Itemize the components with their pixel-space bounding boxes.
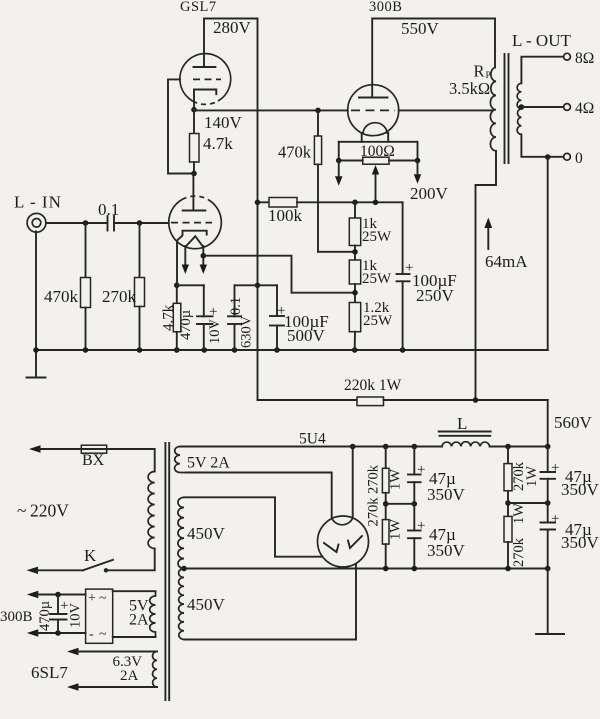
ground symbol left (35, 350, 37, 378)
output transformer OPT primary winding (490, 67, 496, 151)
wire heater elevation to divider (203, 256, 355, 293)
wire 560V drop (547, 400, 549, 447)
svg-text:+: + (417, 518, 425, 534)
5U4 anode right (348, 536, 362, 548)
V1b grid (dashed) (171, 222, 212, 224)
svg-text:+: + (209, 304, 217, 320)
svg-text:0: 0 (575, 150, 583, 167)
wire tap to 4 ohm terminal (521, 106, 563, 108)
rectifier 5U4 envelope (318, 516, 369, 567)
V1b cathode (177, 231, 207, 286)
wire secondary bottom to 0 terminal (521, 134, 563, 156)
svg-text:350V: 350V (561, 533, 600, 552)
svg-text:+: + (551, 460, 559, 476)
resistor 270k 1W (right lower) (504, 516, 512, 542)
svg-text:~ 220V: ~ 220V (17, 501, 69, 521)
T1 450V winding lower (179, 569, 185, 640)
pot wiper arrow (375, 175, 377, 202)
V1b heater (185, 236, 203, 247)
svg-text:220k 1W: 220k 1W (344, 377, 402, 394)
svg-text:~: ~ (99, 627, 107, 642)
svg-text:10V: 10V (68, 603, 84, 629)
resistor 1k 25W (upper) (354, 202, 356, 218)
capacitor 470u 10V filament (55, 592, 61, 598)
svg-text:630V: 630V (239, 315, 255, 348)
wire SRPP output to 300B grid (194, 109, 348, 111)
svg-text:5U4: 5U4 (299, 431, 326, 448)
wire jack to coupling cap (46, 222, 108, 224)
wire switch to primary bottom (106, 549, 155, 571)
svg-text:25W: 25W (362, 271, 392, 287)
node secondary ground (545, 154, 551, 160)
svg-text:300B: 300B (0, 609, 33, 625)
svg-text:500V: 500V (287, 326, 326, 345)
svg-text:L: L (457, 414, 467, 433)
svg-text:350V: 350V (427, 541, 466, 560)
ground symbol right (547, 569, 549, 635)
capacitor 47uF 350V (right lower) (541, 522, 556, 524)
capacitor 100uF 500V (276, 285, 278, 316)
V1a plate (194, 66, 216, 68)
svg-text:-: - (89, 627, 94, 642)
capacitor 47uF 350V (mid lower) (408, 530, 421, 532)
resistor 470k 300B grid (315, 108, 321, 114)
heater pin lead right with arrow (202, 246, 204, 267)
mains arrow top (29, 445, 41, 452)
node input 470k tap (83, 220, 89, 226)
wire divider mid tie (386, 503, 415, 505)
PSU bottom rail (HV centre tap return) (184, 568, 548, 570)
tube 300B envelope (348, 85, 399, 136)
wire 450V top winding to 5U4 anode (184, 497, 323, 556)
ground rail (36, 349, 548, 351)
OPT secondary winding (517, 83, 521, 134)
T1 6.3V winding (6SL7 heater) (67, 648, 79, 655)
wire OPT primary bottom to B+ (476, 151, 497, 400)
transformer T1 primary winding (148, 472, 155, 549)
arrow 64mA annotation (487, 225, 489, 249)
resistor 100k (255, 200, 261, 206)
capacitor 100uF 250V (402, 202, 404, 274)
svg-text:550V: 550V (401, 19, 440, 38)
svg-text:5V 2A: 5V 2A (187, 455, 230, 472)
PSU top rail (5V winding / rectifier output) (180, 446, 442, 448)
wire 300B plate top rail to OPT primary (372, 19, 495, 98)
svg-text:~: ~ (99, 591, 107, 606)
300B filament dome (363, 123, 387, 134)
wire 5U4 filament pin to rail (352, 447, 354, 518)
resistor R 4.7k (SRPP) (193, 110, 195, 134)
svg-text:R: R (474, 62, 485, 81)
svg-text:25W: 25W (362, 229, 392, 245)
filament supply arrow left (338, 161, 340, 179)
svg-text:BX: BX (82, 452, 105, 469)
resistor 270k 1W (mid lower) (382, 520, 389, 545)
T1 450V winding upper (178, 497, 184, 568)
capacitor 47uF 350V (mid upper) (413, 447, 415, 475)
wire jack sleeve to ground rail (35, 231, 37, 350)
T1 5V 2A winding (for 300B filament) (113, 590, 156, 592)
svg-text:470k: 470k (44, 287, 79, 306)
wire grid line right to OPT tap (399, 109, 493, 111)
filament top rail (339, 141, 418, 143)
wire bridge DC+ to 300B filament (arrow) (27, 591, 39, 598)
svg-text:0.1: 0.1 (228, 297, 244, 315)
svg-text:280V: 280V (213, 18, 252, 37)
wire 5V winding bottom to 5U4 filament (186, 473, 332, 518)
wire right divider mid tie (508, 502, 548, 504)
resistor 1.2k 25W (349, 303, 360, 332)
svg-text:300B: 300B (369, 0, 402, 15)
5U4 filament arc (332, 518, 353, 525)
wire B+ feed vertical to filter node (257, 202, 259, 400)
svg-text:1W: 1W (388, 469, 404, 490)
svg-text:4.7k: 4.7k (161, 304, 177, 331)
node V1a cathode (SRPP output 140V) (191, 107, 197, 113)
svg-text:270k: 270k (366, 497, 382, 527)
svg-text:270k: 270k (102, 287, 137, 306)
fuse BX (81, 445, 106, 453)
wire bridge DC- to 300B filament (arrow) (27, 629, 39, 636)
wire filter node (235, 284, 278, 286)
svg-text:GSL7: GSL7 (180, 0, 217, 15)
svg-text:4Ω: 4Ω (575, 100, 594, 117)
resistor 270k 1W (mid upper) (385, 447, 387, 469)
svg-text:25W: 25W (363, 313, 393, 329)
svg-text:2A: 2A (129, 612, 149, 629)
resistor 4.7k cathode (176, 285, 178, 303)
resistor 270k 1W (right upper) (507, 447, 509, 464)
svg-text:200V: 200V (410, 184, 449, 203)
svg-text:1W: 1W (388, 519, 404, 540)
svg-text:+: + (88, 591, 96, 606)
svg-text:4.7k: 4.7k (203, 134, 233, 153)
300B grid dashed (351, 109, 395, 111)
svg-text:+: + (417, 462, 425, 478)
triode V1b (2/2 6SL7) envelope (169, 200, 222, 249)
bridge rectifier box (86, 589, 113, 643)
300B filament legs (361, 133, 363, 142)
svg-text:560V: 560V (554, 413, 593, 432)
svg-text:3.5kΩ: 3.5kΩ (449, 79, 490, 98)
terminal 0 (564, 153, 571, 160)
svg-text:470µ: 470µ (178, 310, 194, 340)
triode V1a (1/2 6SL7) envelope (180, 54, 231, 101)
node input 270k tap (137, 220, 143, 226)
ground rail junction dots (33, 347, 39, 353)
wire secondary top to 8 ohm terminal (521, 57, 563, 84)
svg-text:100k: 100k (268, 206, 303, 225)
node 4 ohm tap (519, 104, 525, 110)
svg-text:470µ: 470µ (37, 601, 53, 631)
heater pin lead left with arrow (184, 246, 186, 267)
svg-text:470k: 470k (278, 143, 312, 162)
wire V1a plate to B+ top rail (204, 19, 258, 203)
svg-text:+: + (551, 511, 559, 527)
transformer T1 core (164, 443, 166, 700)
wire cathode node (177, 284, 204, 286)
resistor 1k 25W (middle) (349, 260, 360, 284)
svg-text:450V: 450V (187, 524, 226, 543)
filament supply arrow right (417, 161, 419, 177)
capacitor 470u 10V cathode bypass (203, 285, 205, 316)
wire fuse to primary (107, 449, 155, 472)
wire V1b plate lead (192, 174, 194, 211)
svg-text:1W: 1W (524, 466, 540, 487)
svg-text:250V: 250V (416, 286, 455, 305)
V1a cathode (194, 90, 216, 110)
svg-text:6SL7: 6SL7 (31, 663, 68, 682)
wire V1a grid to V1b plate node (168, 79, 194, 173)
capacitor 47uF 350V (right upper) (547, 447, 549, 473)
svg-text:350V: 350V (427, 485, 466, 504)
resistor 470k input (85, 223, 87, 278)
5U4 anode left (324, 543, 339, 552)
V1b plate (183, 210, 206, 212)
wire cap to V1b grid (114, 222, 169, 224)
node V1b plate (191, 171, 197, 177)
wire secondary 0 down to ground rail (547, 157, 549, 350)
node heater elevation tap (201, 253, 207, 259)
T1 5V 2A winding (for 5U4) (175, 447, 186, 473)
svg-text:1W: 1W (511, 503, 527, 524)
svg-text:270k: 270k (366, 464, 382, 494)
svg-text:L - IN: L - IN (14, 193, 62, 212)
OPT core (504, 54, 506, 163)
svg-text:450V: 450V (187, 595, 226, 614)
resistor 270k input (139, 223, 141, 278)
svg-text:350V: 350V (561, 480, 600, 499)
300B plate (359, 97, 388, 99)
svg-text:10V: 10V (207, 319, 223, 345)
wire 450V bottom winding to 5U4 anode (185, 564, 357, 640)
svg-text:L - OUT: L - OUT (512, 31, 571, 50)
node V1b cathode (174, 283, 180, 289)
svg-text:K: K (84, 546, 97, 565)
terminal 8 ohm (564, 53, 571, 60)
svg-text:140V: 140V (204, 113, 243, 132)
V1a grid (dashed) (193, 78, 221, 80)
node first stage B+ filter (255, 283, 261, 289)
terminal 4 ohm (564, 104, 571, 111)
svg-text:0.1: 0.1 (98, 200, 119, 219)
svg-text:8Ω: 8Ω (575, 50, 594, 67)
svg-text:64mA: 64mA (485, 252, 528, 271)
svg-text:270k: 270k (511, 537, 527, 567)
svg-text:2A: 2A (120, 668, 139, 684)
capacitor 0.1 630V (234, 285, 236, 316)
